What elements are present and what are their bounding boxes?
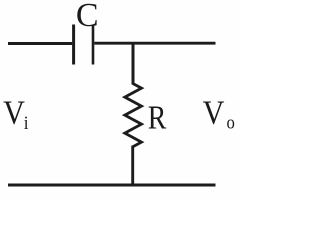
wire resistor bottom lead to bottom rail [131, 146, 134, 186]
svg-text:R: R [148, 98, 167, 136]
resistor R zigzag body [125, 84, 142, 147]
svg-text:i: i [24, 112, 29, 133]
wire top-right segment (capacitor to Vo) [94, 42, 215, 45]
svg-text:V: V [3, 93, 25, 131]
svg-text:V: V [203, 93, 225, 131]
svg-text:C: C [76, 0, 99, 34]
svg-text:o: o [227, 112, 235, 133]
wire top-left segment (Vi to capacitor) [8, 42, 72, 45]
capacitor C right plate [92, 25, 95, 65]
wire vertical from top node down to resistor [132, 43, 135, 85]
wire bottom rail [8, 184, 216, 187]
capacitor C left plate [72, 25, 75, 65]
